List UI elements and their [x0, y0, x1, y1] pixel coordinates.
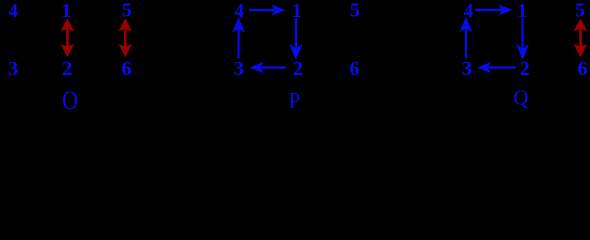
double arrow 5-6 (graph O): [119, 18, 133, 57]
svg-text:3: 3: [462, 58, 473, 80]
arrow 2 to 3 (graph P): [250, 62, 286, 73]
svg-text:4: 4: [9, 0, 19, 22]
svg-text:6: 6: [121, 58, 132, 80]
arrow 3 to 4 (graph P): [232, 17, 245, 59]
svg-text:4: 4: [464, 0, 474, 22]
svg-text:2: 2: [520, 58, 530, 80]
arrow 1 to 2 (graph Q): [516, 19, 529, 61]
svg-text:P: P: [289, 88, 300, 111]
svg-text:5: 5: [122, 0, 132, 22]
svg-text:5: 5: [350, 0, 360, 22]
svg-text:6: 6: [577, 58, 588, 80]
arrow 3 to 4 (graph Q): [460, 17, 473, 59]
arrow 1 to 2 (graph P): [290, 18, 303, 60]
svg-text:5: 5: [575, 0, 585, 22]
svg-text:Q: Q: [514, 86, 529, 110]
arrow 4 to 1 (graph P): [249, 4, 286, 15]
svg-text:2: 2: [62, 58, 73, 80]
double arrow 5-6 (graph Q): [574, 18, 588, 57]
svg-text:1: 1: [61, 0, 72, 22]
double arrow 1-2 (graph O): [61, 18, 75, 57]
svg-text:O: O: [62, 86, 78, 111]
svg-text:3: 3: [234, 58, 245, 80]
arrow 2 to 3 (graph Q): [477, 62, 515, 73]
svg-text:2: 2: [293, 58, 304, 80]
arrow 4 to 1 (graph Q): [475, 4, 512, 15]
svg-text:6: 6: [349, 58, 359, 80]
svg-text:3: 3: [8, 58, 19, 80]
